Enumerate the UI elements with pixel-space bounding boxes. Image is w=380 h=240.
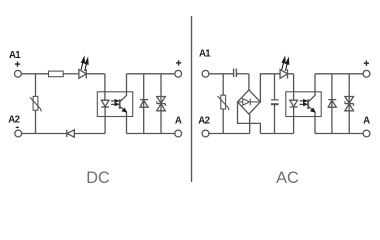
svg-text:A2: A2 bbox=[198, 115, 209, 126]
svg-text:AC: AC bbox=[276, 169, 299, 187]
svg-text:A: A bbox=[363, 115, 370, 126]
svg-text:A2: A2 bbox=[8, 115, 19, 126]
svg-text:A: A bbox=[175, 115, 182, 126]
svg-text:A1: A1 bbox=[199, 49, 211, 60]
svg-text:DC: DC bbox=[86, 169, 110, 187]
svg-text:A1: A1 bbox=[9, 50, 21, 61]
